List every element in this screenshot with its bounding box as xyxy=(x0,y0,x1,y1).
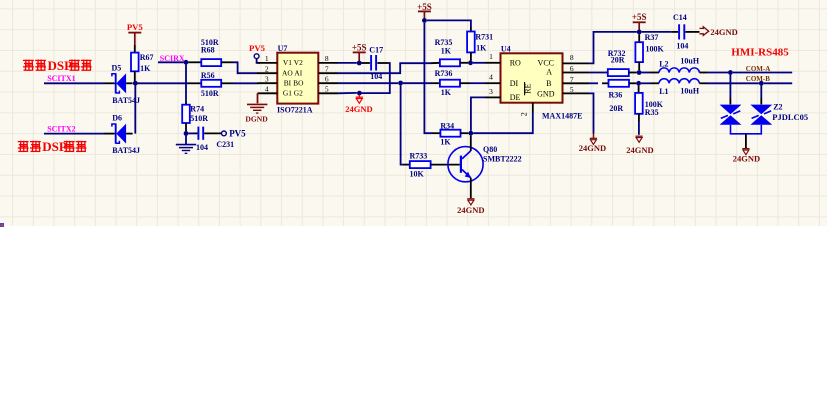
wire U4 pin8 VCC up to +5S rail xyxy=(589,32,637,64)
svg-text:BI: BI xyxy=(284,79,292,88)
svg-text:BAT54J: BAT54J xyxy=(112,146,140,155)
resistor R56 510R (horizontal) xyxy=(201,71,233,98)
svg-text:1K: 1K xyxy=(440,138,451,147)
svg-text:8: 8 xyxy=(570,53,574,62)
wire U7 pin7 to RO line (jog up) xyxy=(338,63,431,73)
svg-text:1: 1 xyxy=(265,54,269,63)
svg-text:3: 3 xyxy=(489,87,493,96)
svg-text:RO: RO xyxy=(510,58,521,67)
wire R37 junction to L2 xyxy=(642,72,660,74)
svg-text:R736: R736 xyxy=(435,69,453,78)
svg-text:100K: 100K xyxy=(646,44,665,53)
wire +5S down to R34 xyxy=(424,23,432,134)
wire L2 to COM-A xyxy=(707,72,728,74)
svg-text:G1: G1 xyxy=(283,89,292,98)
svg-text:L2: L2 xyxy=(659,59,668,68)
capacitor C17 104 xyxy=(362,45,389,81)
svg-text:104: 104 xyxy=(676,41,688,50)
power port 24GND arrow right of C14 xyxy=(700,27,738,37)
svg-text:10uH: 10uH xyxy=(680,86,699,95)
diode D5 BAT54J (schottky, pointing left) xyxy=(112,64,141,106)
wire R736 to U4 pin4 xyxy=(470,82,485,84)
svg-text:4: 4 xyxy=(489,73,493,82)
svg-text:R68: R68 xyxy=(201,46,215,55)
svg-text:R731: R731 xyxy=(475,33,493,42)
svg-text:20R: 20R xyxy=(609,104,623,113)
wire COM-B junction down to TVS xyxy=(760,86,762,105)
svg-text:R36: R36 xyxy=(609,91,623,100)
svg-text:V2: V2 xyxy=(294,58,303,67)
svg-text:2: 2 xyxy=(265,64,269,73)
svg-text:U7: U7 xyxy=(278,44,288,53)
wire SCITX2 to D6 cathode xyxy=(44,133,115,135)
op-amp U7 ISO7221A digital isolator xyxy=(258,44,339,115)
svg-text:A: A xyxy=(546,68,552,77)
svg-text:DGND: DGND xyxy=(245,114,268,123)
wire BO junction down to R733 xyxy=(401,85,403,164)
svg-text:DE: DE xyxy=(510,93,521,102)
svg-text:DSP: DSP xyxy=(48,58,73,73)
svg-text:8: 8 xyxy=(325,54,329,63)
node COM-B / TVS junction xyxy=(759,81,764,86)
svg-text:C231: C231 xyxy=(216,140,234,149)
svg-text:3: 3 xyxy=(265,74,269,83)
svg-text:HMI-RS485: HMI-RS485 xyxy=(731,47,789,59)
wire +5S to R731 top xyxy=(427,20,471,28)
svg-text:D6: D6 xyxy=(112,114,122,123)
diode D6 BAT54J (schottky, pointing left) xyxy=(112,114,140,156)
resistor R35 100K (vertical) xyxy=(635,86,664,121)
svg-text:R67: R67 xyxy=(140,53,154,62)
svg-text:1K: 1K xyxy=(476,44,487,53)
svg-text:C14: C14 xyxy=(673,13,687,22)
resistor R36 20R (horizontal) xyxy=(609,80,637,113)
wire SCITX1 to D5 cathode xyxy=(44,82,115,84)
svg-text:1K: 1K xyxy=(441,47,452,56)
wire junction to U4 pin2 xyxy=(473,112,533,133)
ground 24GND below R35 xyxy=(626,136,653,155)
svg-text:D5: D5 xyxy=(112,64,122,73)
resistor R34 1K (horizontal) xyxy=(432,121,468,146)
svg-text:Z2: Z2 xyxy=(773,102,782,111)
node SCIRX junction xyxy=(184,60,189,65)
wire R56 to U7 pin3 xyxy=(233,82,259,84)
resistor R735 1K (horizontal) xyxy=(431,38,468,66)
svg-text:DI: DI xyxy=(510,79,519,88)
svg-text:L1: L1 xyxy=(659,87,668,96)
svg-text:7: 7 xyxy=(570,75,574,84)
title 逆变DSP通讯 (inverter DSP comms, red) xyxy=(18,139,87,154)
svg-text:24GND: 24GND xyxy=(710,27,737,37)
wire COM-A junction down to TVS xyxy=(729,75,731,105)
svg-text:SMBT2222: SMBT2222 xyxy=(483,155,522,164)
svg-text:1: 1 xyxy=(489,52,493,61)
svg-text:4: 4 xyxy=(265,84,269,93)
wire SCIRX stub xyxy=(158,61,184,63)
svg-text:AI: AI xyxy=(294,69,302,78)
svg-text:R733: R733 xyxy=(410,152,428,161)
svg-text:24GND: 24GND xyxy=(626,145,653,155)
wire U4 pin6 A to R732 xyxy=(589,72,605,74)
resistor R736 1K (horizontal) xyxy=(431,69,470,97)
svg-text:GND: GND xyxy=(537,89,555,98)
svg-text:10uH: 10uH xyxy=(680,56,699,65)
svg-text:PJDLC05: PJDLC05 xyxy=(772,112,808,122)
wire D5 node to R56 (horizontal) xyxy=(138,82,202,84)
svg-text:510R: 510R xyxy=(190,114,208,123)
svg-text:10K: 10K xyxy=(410,169,425,178)
svg-text:VCC: VCC xyxy=(538,58,554,67)
wire U4 pin5 GND down xyxy=(589,93,594,133)
wire R68 to U7 pin2 (jog) xyxy=(233,62,259,73)
power +5S above R731 xyxy=(417,2,432,18)
transistor Z2 PJDLC05 TVS (bidirectional, right element) xyxy=(750,102,808,133)
ground (power gnd) below R74 xyxy=(176,144,196,146)
wire U7 pin6 to BO junction xyxy=(338,82,398,84)
svg-text:6: 6 xyxy=(325,74,329,83)
node U7 pin5 gnd junction xyxy=(357,91,362,96)
svg-text:COM-B: COM-B xyxy=(746,75,770,83)
power PV5 above R67 xyxy=(127,22,144,45)
svg-text:Q80: Q80 xyxy=(483,145,497,154)
power +5S at U7 pin8 xyxy=(352,42,367,61)
svg-text:U4: U4 xyxy=(501,44,511,53)
wire TVS common to 24GND xyxy=(730,134,762,148)
svg-text:BO: BO xyxy=(293,79,304,88)
svg-text:MAX1487E: MAX1487E xyxy=(542,112,582,121)
op-amp U4 MAX1487E transceiver xyxy=(485,44,589,120)
node +5S C14 junction xyxy=(637,30,642,35)
wire L1 to COM-B xyxy=(707,82,759,84)
node BO junction xyxy=(398,81,403,86)
svg-text:104: 104 xyxy=(196,143,208,152)
inductor L1 10uH xyxy=(659,79,707,96)
wire U7 pin5 to junction xyxy=(338,92,357,94)
svg-text:R37: R37 xyxy=(645,33,659,42)
node DE/R34/collector junction xyxy=(468,131,473,136)
resistor R731 1K (vertical) xyxy=(467,28,493,61)
resistor R733 10K (horizontal) xyxy=(402,152,460,179)
svg-text:20R: 20R xyxy=(611,56,625,65)
ground 24GND at U7 pin5 (red) xyxy=(345,95,372,115)
svg-text:5: 5 xyxy=(570,85,574,94)
ground 24GND below Z2 xyxy=(733,149,760,164)
node B-line / R35 junction xyxy=(636,81,641,86)
wire U4 pin3 DE down to junction xyxy=(471,97,485,130)
wire U7 pin4 to DGND xyxy=(257,93,259,103)
wire COM-B to edge xyxy=(764,82,793,84)
resistor R732 20R (horizontal) xyxy=(605,49,636,76)
svg-text:RE: RE xyxy=(524,83,533,93)
node RO junction (R731/R735/pin1) xyxy=(468,60,473,65)
node R74/C231/ground junction xyxy=(184,131,189,136)
capacitor C14 104 xyxy=(642,13,700,50)
svg-text:+5S: +5S xyxy=(632,12,647,22)
wire C17 right down to gnd line xyxy=(362,63,390,93)
wire junction to ground xyxy=(185,136,187,144)
svg-text:1K: 1K xyxy=(140,64,151,73)
svg-text:+5S: +5S xyxy=(417,2,432,12)
svg-text:V1: V1 xyxy=(283,58,292,67)
power port PV5 circle right of C231 xyxy=(222,129,247,139)
wire RO junction to U4 pin1 xyxy=(473,62,485,64)
svg-text:G2: G2 xyxy=(294,89,303,98)
node A-line / R37 junction xyxy=(637,70,642,75)
node +5S junction xyxy=(422,18,427,23)
inductor L2 10uH xyxy=(659,56,707,72)
wire R35 junction to L1 xyxy=(641,82,659,84)
svg-text:2: 2 xyxy=(520,112,529,116)
svg-text:R56: R56 xyxy=(201,71,215,80)
svg-text:24GND: 24GND xyxy=(345,104,372,114)
ground DGND xyxy=(245,104,268,123)
resistor R74 510R (vertical) xyxy=(182,102,208,132)
ground 24GND at Q80 emitter xyxy=(457,199,484,215)
resistor R37 100K (vertical) xyxy=(635,33,664,70)
wire U7 pin8 to +5S node xyxy=(338,62,357,64)
svg-text:PV5: PV5 xyxy=(249,43,266,53)
svg-text:1K: 1K xyxy=(441,88,452,97)
svg-text:R35: R35 xyxy=(645,108,659,117)
svg-text:B: B xyxy=(546,79,551,88)
node COM-A / TVS junction xyxy=(728,70,733,75)
wire D5 anode junction to D6 anode (vertical) xyxy=(134,83,136,133)
svg-text:5: 5 xyxy=(325,84,329,93)
svg-text:7: 7 xyxy=(325,64,329,73)
title 整流DSP通讯 (rectifier DSP comms, red) xyxy=(23,58,92,73)
svg-text:AO: AO xyxy=(282,69,293,78)
svg-text:24GND: 24GND xyxy=(457,205,484,215)
svg-text:24GND: 24GND xyxy=(733,154,760,164)
resistor R68 510R (horizontal) xyxy=(188,38,233,66)
svg-text:PV5: PV5 xyxy=(127,22,144,32)
wire U4 pin7 B to R36 xyxy=(589,82,609,84)
svg-text:6: 6 xyxy=(570,64,574,73)
svg-text:ISO7221A: ISO7221A xyxy=(277,106,313,115)
svg-text:SCITX2: SCITX2 xyxy=(47,125,75,134)
node D5/D6/R67 junction xyxy=(133,81,138,86)
power PV5 at U7 pin1 xyxy=(249,43,266,63)
wire COM-A to edge xyxy=(733,72,792,74)
transistor Q80 SMBT2222 (NPN) xyxy=(448,136,522,199)
wire R35 to 24GND xyxy=(638,121,640,135)
transistor Z2 PJDLC05 TVS (bidirectional, left element) xyxy=(720,105,742,134)
svg-text:24GND: 24GND xyxy=(579,143,606,153)
svg-text:DSP: DSP xyxy=(42,139,67,154)
svg-text:SCITX1: SCITX1 xyxy=(47,74,75,83)
ground 24GND below U4 pin5 xyxy=(579,134,606,154)
wire SCIRX junction down to R74 xyxy=(185,65,187,102)
node +5S / pin8 junction xyxy=(357,61,362,66)
svg-text:C17: C17 xyxy=(369,45,383,54)
capacitor C231 104 xyxy=(188,127,234,152)
wire BO junction to R736 xyxy=(403,82,431,84)
resistor R67 1K (vertical) xyxy=(131,45,153,81)
svg-text:PV5: PV5 xyxy=(229,129,246,139)
svg-text:R74: R74 xyxy=(190,104,204,113)
power +5S above C14 rail xyxy=(632,12,647,30)
svg-text:510R: 510R xyxy=(201,89,219,98)
svg-text:+5S: +5S xyxy=(352,42,367,52)
